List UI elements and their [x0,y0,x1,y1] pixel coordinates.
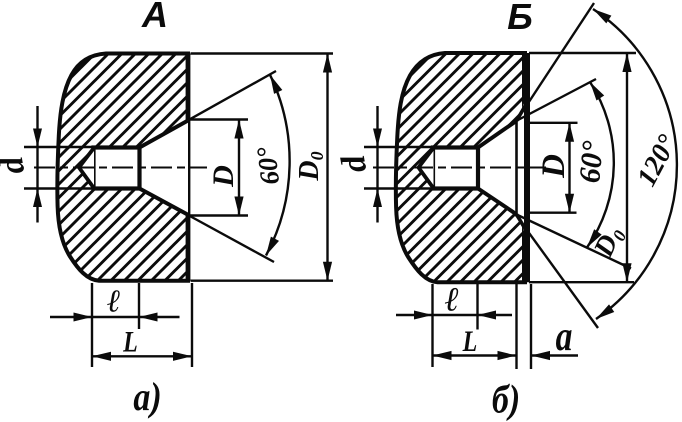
svg-text:ℓ: ℓ [445,282,460,319]
60deg slant extension bottom A [188,215,274,262]
cone top edge A [140,121,189,148]
drill tip B [419,148,434,188]
drill tip A [79,148,94,188]
face line B [522,53,530,282]
D0 dimension line A [326,54,328,281]
60deg slant extension bottom B [517,215,632,269]
D0 dimension line B [626,53,628,282]
svg-text:D: D [207,165,240,188]
lower extension lines A [91,283,93,367]
svg-text:a: a [556,314,573,360]
hatched section body A [57,54,190,281]
120deg side extension top B [517,3,594,120]
60deg dimension arc B [587,82,614,248]
axis center line B [373,167,546,169]
face line A [186,54,191,281]
center hole cylinder A [94,148,140,189]
60deg dimension arc A [266,75,290,256]
l dimension A [50,316,180,318]
svg-text:60°: 60° [573,140,610,185]
svg-text:L: L [122,325,138,358]
top edge extension B [529,52,636,54]
svg-text:D: D [536,154,572,179]
d extension lines A [24,146,94,148]
L dimension A [92,355,192,357]
body outline A [57,54,190,281]
cone top edge B [478,121,517,148]
L dimension B [433,354,517,356]
top edge extension A [191,52,334,54]
d extension lines B [364,146,433,148]
cone 60 B (white opening) [478,104,524,232]
cone bottom edge B [478,189,517,215]
D dimension line A [238,120,240,216]
svg-text:б): б) [492,378,520,422]
D extension lines A [189,118,248,120]
body outline B [396,53,527,282]
hatched section body B [396,53,527,282]
svg-text:А: А [141,0,168,35]
60deg slant extension top A [188,71,276,120]
a dimension B [531,354,578,356]
D extension lines B [528,122,578,124]
chamfer inner edge line B [515,118,518,217]
120deg dimension arc B [593,9,677,319]
lower extension lines B [431,284,433,367]
svg-text:Б: Б [507,0,533,37]
center hole cylinder B [433,148,478,189]
chamfer bottom edge B [517,214,528,232]
bottom edge extension A [191,280,334,282]
axis center line A [34,167,207,169]
bottom edge extension B [529,281,634,283]
svg-text:а): а) [133,376,161,420]
d dimension arrows A [36,106,38,223]
cone bottom edge A [140,189,189,215]
d dimension arrows B [376,106,378,223]
svg-text:L: L [462,324,478,357]
l dimension B [396,314,512,316]
D dimension line B [568,123,570,213]
svg-text:60°: 60° [251,145,285,186]
cone 60 A (white opening) [140,120,189,215]
120deg side extension bottom B [516,215,598,328]
60deg slant extension top B [517,79,596,121]
svg-text:ℓ: ℓ [107,283,121,319]
chamfer top edge B [517,103,528,121]
